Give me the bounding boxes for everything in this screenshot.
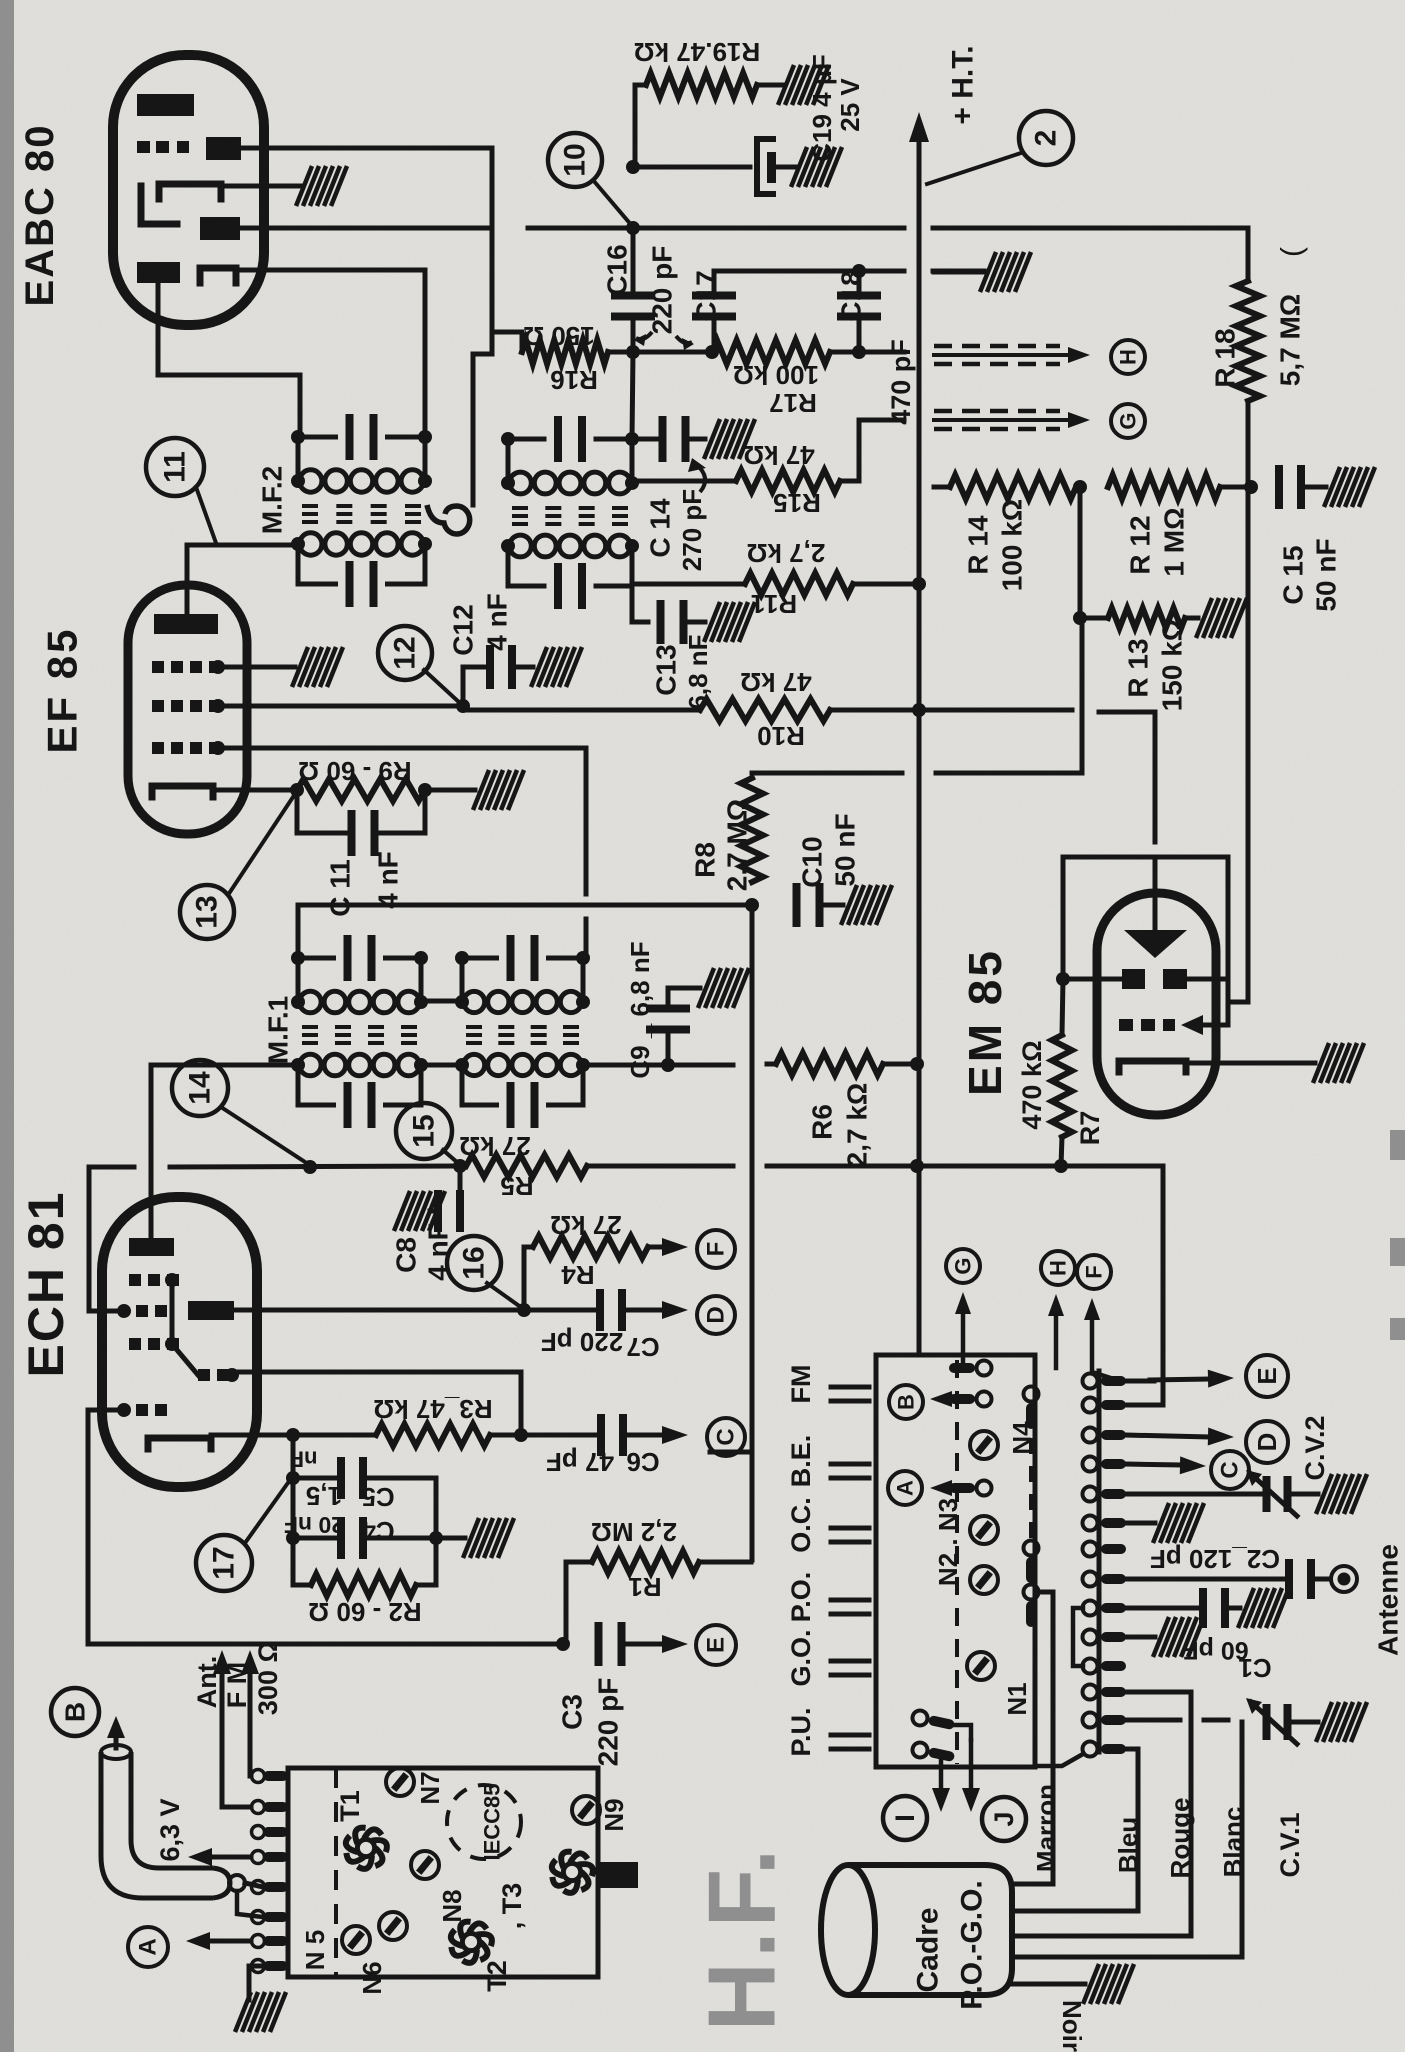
svg-text:4 nF: 4 nF	[482, 593, 513, 651]
ground C14	[704, 419, 755, 459]
node dot 16	[517, 1303, 531, 1317]
circled D (mid)	[697, 1296, 735, 1334]
C6 arrow to C	[628, 1433, 662, 1438]
gang pin5 wire	[1126, 1492, 1262, 1497]
circled H (mid)	[1041, 1251, 1075, 1285]
ECH81 g4 dashes	[129, 1274, 141, 1286]
capacitor C9	[646, 1005, 690, 1013]
EABC80 diode plate C shape	[159, 184, 221, 199]
resistor R18	[1236, 281, 1260, 401]
svg-text:R 12: R 12	[1125, 515, 1156, 574]
svg-text:C8: C8	[391, 1237, 422, 1273]
capacitor C4	[337, 1517, 345, 1559]
node dot C18 top	[852, 264, 866, 278]
resistor R10	[700, 699, 830, 721]
EM85 electrode left	[1122, 969, 1145, 989]
svg-text:27 kΩ: 27 kΩ	[550, 1210, 621, 1240]
svg-text:C.V.2: C.V.2	[1300, 1415, 1330, 1480]
wire Bleu	[1012, 1749, 1138, 1911]
svg-text:2,7 kΩ: 2,7 kΩ	[842, 1083, 873, 1168]
ECH81 g5 dot	[117, 1403, 131, 1417]
svg-text:R 18: R 18	[1210, 328, 1241, 387]
svg-text:220 pF: 220 pF	[541, 1327, 623, 1357]
svg-text:13: 13	[191, 895, 224, 928]
svg-text:ECH 81: ECH 81	[18, 1190, 74, 1377]
svg-text:Cadre: Cadre	[912, 1907, 945, 1992]
wire R10 lead	[463, 708, 700, 713]
screw N9	[572, 1796, 600, 1824]
wire R8 node down	[750, 905, 755, 1560]
pinwheel T1	[357, 1839, 374, 1856]
svg-text:100 kΩ: 100 kΩ	[997, 499, 1028, 592]
capacitor C19 electrolytic	[757, 139, 773, 194]
EF85 cathode	[152, 786, 213, 797]
ground EABC80 grid	[296, 166, 347, 206]
svg-text:C9 _ 6,8 nF: C9 _ 6,8 nF	[625, 941, 655, 1078]
node dot bus/R19	[626, 221, 640, 235]
svg-text:R4: R4	[561, 1260, 595, 1290]
EM85 grid dashes	[1119, 1019, 1133, 1031]
wire EF85 cathode to R9	[213, 788, 297, 793]
wire EABC80 g to ground	[221, 184, 300, 189]
gang pin6 wire	[1126, 1521, 1155, 1526]
wire R1 right	[699, 1560, 751, 1565]
C17 pointer	[676, 336, 692, 343]
gang pin9-11 bracket	[1073, 1608, 1083, 1666]
wire R18 to C15 node	[1246, 401, 1251, 487]
wire F pin link	[1092, 1372, 1154, 1381]
wire g1 to AVC	[89, 1309, 124, 1314]
wire MF1 primary to ECH81	[151, 1065, 298, 1238]
svg-text:T1: T1	[335, 1790, 365, 1822]
node dot R19/C19	[626, 160, 640, 174]
R4 arrow to F	[648, 1245, 662, 1250]
svg-text:N1: N1	[1002, 1682, 1032, 1715]
screw N1	[967, 1652, 995, 1680]
svg-text:R19.47 kΩ: R19.47 kΩ	[634, 37, 760, 67]
ground CV2	[1316, 1474, 1367, 1514]
wire cathode net down	[291, 1435, 296, 1585]
capacitor C14	[659, 416, 667, 462]
wire N1 to Marron	[1041, 1590, 1053, 1595]
node dot C3	[556, 1637, 570, 1651]
svg-text:G.O.: G.O.	[786, 1629, 816, 1686]
svg-text:Noir: Noir	[1057, 2000, 1087, 2052]
AVC bus seg2	[170, 1166, 460, 1167]
gang pin8 wire	[1126, 1577, 1285, 1582]
wire R12 right	[1220, 485, 1251, 490]
svg-text:5,7 MΩ: 5,7 MΩ	[1275, 294, 1306, 386]
wire C7 lead	[524, 1308, 596, 1313]
wire CV2 ground lead	[1291, 1492, 1318, 1497]
wire R10 to break	[919, 708, 1072, 713]
wire C15 node to EM85	[1228, 487, 1248, 1002]
tube V3 EM 85 envelope	[1097, 893, 1216, 1115]
wire C17 bottom	[712, 315, 717, 352]
EABC80 grid dashes	[137, 141, 150, 153]
wire C14 lead	[632, 437, 660, 442]
dashed circle IECC85	[447, 1785, 521, 1859]
wire C16 bottom	[631, 315, 636, 352]
ECH81 anode bar	[129, 1238, 174, 1256]
svg-text:17: 17	[208, 1546, 241, 1579]
M.F.2 coupling loop	[427, 505, 470, 534]
AVC bus left	[89, 1167, 134, 1311]
svg-text:R 13: R 13	[1123, 638, 1154, 697]
ECH81 screen rect	[188, 1301, 234, 1320]
screw N7	[386, 1768, 414, 1796]
ground gang p10	[1153, 1617, 1204, 1657]
ECH81 triode grid dashes	[198, 1369, 210, 1381]
svg-text:25 V: 25 V	[835, 78, 865, 132]
node dot C15	[1244, 480, 1258, 494]
svg-text:R17: R17	[769, 388, 817, 418]
wire EF85 g2 to R10 row	[218, 704, 463, 709]
dashed lamp line to H	[934, 353, 1068, 357]
gang pin1 arrow to E	[1150, 1379, 1208, 1380]
coax plug	[229, 1875, 245, 1891]
svg-text:N8: N8	[437, 1889, 467, 1922]
circled ref 14	[172, 1060, 228, 1116]
svg-text:R1: R1	[628, 1572, 661, 1602]
AVC bus to gang	[1061, 1166, 1163, 1405]
capacitor C8	[434, 1190, 442, 1232]
circled E (gang)	[1246, 1355, 1288, 1397]
wire C17 drop	[712, 271, 717, 297]
capacitor C17	[692, 292, 736, 300]
wire R1 left	[566, 1562, 592, 1645]
switch PU pin 1	[911, 1709, 956, 1733]
wire R11 right	[853, 582, 919, 587]
svg-text:1,5: 1,5	[306, 1481, 342, 1511]
capacitor C5	[337, 1457, 345, 1499]
svg-text:R 14: R 14	[963, 515, 994, 575]
transformer box	[288, 1768, 598, 1977]
node dot 12	[456, 699, 470, 713]
svg-text:+ H.T.: + H.T.	[947, 45, 980, 124]
svg-text:14: 14	[184, 1071, 217, 1105]
leader line 10	[593, 180, 633, 227]
circled D (gang)	[1246, 1421, 1288, 1463]
svg-text:C 14: C 14	[645, 498, 676, 558]
svg-text:A: A	[135, 1938, 162, 1955]
svg-text:H: H	[1046, 1260, 1071, 1276]
screw N8	[411, 1851, 439, 1879]
EM85 electrode right	[1163, 969, 1187, 989]
wire C6 lead	[521, 1433, 596, 1438]
AVC bus seg4	[767, 1164, 1061, 1169]
svg-text:15: 15	[408, 1114, 441, 1147]
svg-text:Marron: Marron	[1031, 1784, 1061, 1872]
svg-text:47 kΩ: 47 kΩ	[740, 667, 811, 697]
wire C18 leads	[857, 271, 862, 297]
variable capacitor C.V.2	[1263, 1476, 1271, 1512]
resistor R8	[741, 778, 763, 882]
svg-text:R11: R11	[751, 589, 797, 619]
ground gang p6	[1153, 1503, 1204, 1543]
svg-text:27 kΩ: 27 kΩ	[459, 1131, 530, 1161]
switch N4 dashed line	[1029, 1410, 1033, 1545]
screw N5	[342, 1926, 370, 1954]
svg-text:100 kΩ: 100 kΩ	[733, 360, 819, 390]
resistor R12	[1108, 475, 1220, 499]
wire y271 right stub	[933, 269, 984, 274]
screw N2	[970, 1516, 998, 1544]
arrow to H	[1054, 1316, 1059, 1368]
svg-text:1 MΩ: 1 MΩ	[1159, 507, 1190, 576]
svg-text:R9 - 60 Ω: R9 - 60 Ω	[298, 756, 411, 786]
variable capacitor C.V.1	[1263, 1704, 1271, 1740]
svg-text:EABC 80: EABC 80	[18, 124, 62, 307]
svg-text:(: (	[1276, 247, 1309, 257]
circled C (osc)	[707, 1418, 745, 1456]
wire R15 to G row	[840, 420, 904, 481]
circled G (top)	[1111, 404, 1145, 438]
circled ref 12	[378, 626, 432, 680]
wire R16 left lead	[492, 332, 522, 352]
svg-text:F M: F M	[222, 1662, 252, 1709]
wire R14 lead	[934, 485, 950, 490]
wire bus y228 left	[241, 226, 491, 231]
svg-text:R5: R5	[500, 1171, 533, 1201]
svg-text:N7: N7	[415, 1771, 445, 1804]
circled I	[883, 1796, 927, 1840]
wire Marron	[1012, 1592, 1053, 1884]
resistor R4	[533, 1236, 648, 1258]
capacitor C1	[1199, 1588, 1207, 1628]
wire C12 stub	[463, 667, 485, 706]
wire R17 right	[830, 350, 904, 355]
ground C9	[698, 968, 749, 1008]
wire Blanc	[1012, 1722, 1242, 1957]
ECH81 g5 dashes	[136, 1404, 148, 1416]
svg-text:150 Ω: 150 Ω	[523, 321, 594, 351]
svg-text:Antenne: Antenne	[1373, 1544, 1404, 1656]
svg-text:2,7 kΩ: 2,7 kΩ	[747, 538, 826, 568]
ground C13	[704, 602, 755, 642]
node dot EM85 grid	[1056, 972, 1070, 986]
AVC bus seg3	[587, 1164, 733, 1169]
C14 pointer arrow	[696, 464, 705, 492]
svg-text:O.C.: O.C.	[786, 1497, 816, 1553]
wire MF2B down to C13	[632, 584, 648, 622]
gang pin10 wire	[1126, 1635, 1155, 1640]
wire R13 lead	[1080, 616, 1108, 621]
circled F (mid)	[1077, 1255, 1111, 1289]
paper grain	[0, 0, 1, 1]
EF85 g2 dashes	[152, 700, 164, 712]
circled B (ant)	[51, 1688, 99, 1736]
svg-text:50 nF: 50 nF	[830, 813, 861, 886]
resistor R13	[1108, 608, 1185, 628]
switch wafer dashed line	[955, 1360, 959, 1764]
svg-text:220 pF: 220 pF	[647, 246, 678, 335]
switch coil pair O.C.	[831, 1526, 869, 1531]
resistor R15	[736, 470, 840, 492]
svg-text:R2 - 60 Ω: R2 - 60 Ω	[308, 1597, 421, 1627]
svg-text:J: J	[989, 1811, 1019, 1826]
switch pin N4	[1024, 1387, 1039, 1430]
svg-text:C10: C10	[797, 836, 828, 887]
gray edge tab 3	[1390, 1318, 1405, 1340]
ECH81 g3 dot	[165, 1337, 179, 1351]
EM85 frame right	[1226, 857, 1231, 1025]
wire cathode row	[211, 1433, 293, 1438]
gang pin4 arrow to C	[1126, 1464, 1180, 1465]
wire C15 to ground	[1304, 485, 1326, 490]
svg-text:R6: R6	[807, 1104, 838, 1140]
wire R6 left	[767, 1062, 776, 1067]
ground R13	[1196, 598, 1247, 638]
wire R2 loop	[291, 1538, 296, 1585]
resistor R5	[466, 1155, 587, 1177]
switch coil pair G.O.	[831, 1659, 869, 1664]
EM85 frame left	[1061, 857, 1066, 979]
node dot R13	[1073, 611, 1087, 625]
wire Rouge	[1012, 1692, 1191, 1936]
node dot R3/C6	[514, 1428, 528, 1442]
C3 arrow to E	[626, 1642, 662, 1647]
svg-text:16: 16	[458, 1246, 491, 1279]
EF85 g3 dashes	[152, 661, 164, 673]
wire EABC80 bottom pin	[158, 283, 300, 437]
capacitor C6	[597, 1414, 605, 1456]
svg-text:C: C	[1217, 1461, 1244, 1478]
node dot HT/R10	[912, 703, 926, 717]
gang pin2 wire	[1126, 1403, 1163, 1408]
FM ant arrow 2	[248, 1674, 253, 1776]
circled C (gang)	[1211, 1451, 1249, 1489]
gang pin14 to switch corner	[1035, 1754, 1083, 1766]
resistor R14	[950, 475, 1076, 499]
leader line 13	[228, 794, 295, 895]
screw N3b	[970, 1566, 998, 1594]
C7 arrow to D	[627, 1308, 662, 1313]
svg-text:C12: C12	[448, 604, 479, 655]
svg-text:IECC85: IECC85	[480, 1783, 505, 1860]
wire MF1 A-B top link	[421, 999, 462, 1004]
svg-text:C16: C16	[602, 244, 633, 295]
EM85 target triangle	[1124, 930, 1187, 958]
gray edge tab 1	[1390, 1130, 1405, 1160]
svg-text:N2 . N3: N2 . N3	[933, 1498, 963, 1586]
node dot C5 left	[286, 1471, 300, 1485]
svg-text:E: E	[703, 1637, 730, 1653]
wire triode grid row	[232, 1372, 521, 1435]
svg-text:11: 11	[159, 451, 192, 483]
IF transformer M.F.1 tank B	[462, 956, 497, 961]
circled A (switch)	[888, 1471, 922, 1505]
wire EM85 anode feed	[1099, 712, 1155, 842]
circled J	[982, 1797, 1026, 1841]
coax wire 1	[245, 1883, 263, 1887]
wire R11 lead left	[632, 582, 745, 587]
wire R10 right	[830, 708, 919, 713]
wire EM85 cathode to ground	[1186, 1061, 1315, 1066]
gray scanner edge strip	[0, 0, 14, 2052]
svg-text:Bleu: Bleu	[1113, 1817, 1143, 1873]
switch PU pin 2	[911, 1741, 956, 1765]
svg-text:C2_120 pF: C2_120 pF	[1150, 1544, 1280, 1574]
heater arrow 6,3V	[212, 1855, 251, 1860]
ground transformer	[235, 1992, 286, 2032]
arrow to B	[952, 1397, 975, 1402]
coax wire 2	[237, 1891, 263, 1917]
ECH81 triode grid dot	[225, 1368, 239, 1382]
+H.T. feed line	[917, 142, 922, 710]
node dot cathode/R3	[286, 1428, 300, 1442]
wire C11 left	[297, 790, 345, 833]
svg-text:C: C	[713, 1428, 740, 1445]
capacitor C10	[793, 883, 801, 927]
ground Noir	[1083, 1964, 1134, 2004]
wire R7 leads	[1062, 979, 1063, 1035]
C16 pointer	[636, 332, 652, 339]
node dot C9	[661, 1058, 675, 1072]
svg-text:Ant.: Ant.	[192, 1656, 222, 1708]
svg-text:150 kΩ: 150 kΩ	[1157, 619, 1188, 712]
svg-text:E: E	[1252, 1367, 1282, 1384]
wire R3 leads	[293, 1433, 376, 1438]
svg-text:H.F.: H.F.	[689, 1845, 796, 2032]
arrow to F	[1090, 1320, 1095, 1372]
arrow to J	[969, 1740, 974, 1788]
svg-text:2,7 MΩ: 2,7 MΩ	[722, 799, 753, 891]
wire EF85 g3 ground	[218, 665, 295, 670]
svg-text:C.V.1: C.V.1	[1275, 1812, 1305, 1877]
resistor R7	[1052, 1035, 1072, 1137]
svg-text:M.F.1: M.F.1	[263, 996, 294, 1064]
svg-text:47 pF: 47 pF	[546, 1447, 614, 1477]
wire C10 ground lead	[822, 903, 843, 908]
svg-text:470 kΩ: 470 kΩ	[1017, 1040, 1047, 1129]
arrow to A	[952, 1486, 975, 1491]
svg-text:2: 2	[1030, 130, 1063, 147]
wire C9 row	[583, 1063, 733, 1068]
wire R13 node down	[1080, 618, 1085, 773]
node dot R7 bus	[1054, 1159, 1068, 1173]
circled ref 16	[447, 1236, 501, 1290]
node dot C17/R17	[705, 345, 719, 359]
svg-text:P.O.-G.O.: P.O.-G.O.	[956, 1880, 989, 2009]
leader line 17	[245, 1480, 290, 1543]
ground C12	[531, 647, 582, 687]
gang pin12 wire to Rouge	[1126, 1690, 1191, 1695]
wire ECH81 anode up	[149, 1076, 154, 1238]
svg-text:H: H	[1116, 349, 1141, 365]
svg-text:nF: nF	[291, 1447, 318, 1472]
resistor R11	[745, 573, 853, 595]
gang pin1 wire	[1126, 1379, 1154, 1384]
wire vert x492 down	[490, 148, 495, 354]
gang pins	[1083, 1374, 1098, 1389]
switch pin N1a	[1024, 1541, 1039, 1584]
svg-text:F: F	[703, 1242, 730, 1257]
EABC80 anode plate bar	[137, 94, 194, 116]
node dot R9 right	[418, 783, 432, 797]
resistor R19	[646, 73, 757, 97]
svg-text:EF 85: EF 85	[39, 626, 86, 753]
svg-text:N9: N9	[599, 1798, 629, 1831]
wire C12 ground lead	[515, 665, 533, 670]
IF transformer M.F.2 tank B	[508, 437, 544, 442]
svg-text:C17: C17	[691, 270, 722, 321]
svg-text:F: F	[1082, 1265, 1107, 1278]
wire C1 gnd lead	[1228, 1606, 1240, 1611]
svg-text:B.E.: B.E.	[786, 1435, 816, 1488]
FM ant arrow 1	[220, 1674, 225, 1800]
svg-text:R10: R10	[757, 721, 805, 751]
